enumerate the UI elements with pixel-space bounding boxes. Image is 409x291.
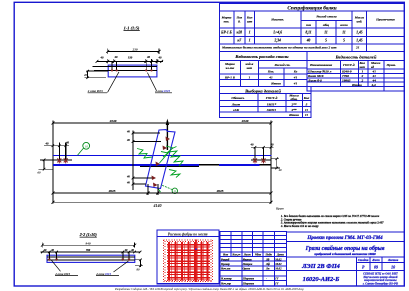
- beam bottom dim line 2: [52, 201, 273, 204]
- beam top dimension line: [52, 120, 273, 203]
- svg-text:5: 5: [325, 39, 327, 43]
- splice dim labels: [126, 130, 130, 184]
- svg-text:41: 41: [372, 70, 377, 74]
- svg-text:20: 20: [83, 73, 88, 77]
- mesh border dots: [164, 240, 213, 282]
- svg-text:40: 40: [270, 143, 275, 147]
- beam left end height dim: [39, 159, 54, 171]
- svg-text:09: 09: [374, 265, 378, 270]
- svg-text:1: 1: [362, 70, 364, 74]
- svg-text:10.02: 10.02: [275, 263, 282, 266]
- title block stage cells: [358, 258, 399, 269]
- svg-text:2**: 2**: [290, 108, 296, 112]
- svg-text:Обознач.: Обознач.: [231, 96, 244, 100]
- svg-text:прибрежной и болотистой местно: прибрежной и болотистой местности 16020: [314, 251, 376, 256]
- svg-text:Nдок: Nдок: [254, 253, 262, 256]
- section 1-1 leader right: [147, 73, 156, 91]
- svg-text:д.: д.: [238, 19, 241, 23]
- svg-text:Нач.от: Нач.от: [220, 268, 231, 271]
- svg-text:80: 80: [137, 267, 141, 271]
- svg-text:2025: 2025: [216, 189, 224, 193]
- beam right bolt dim: [251, 146, 273, 149]
- svg-text:ГГ: ГГ: [274, 283, 279, 286]
- svg-text:Выборка деталей: Выборка деталей: [244, 88, 281, 93]
- beam left bolt dim: [44, 144, 69, 147]
- svg-text:Петров: Петров: [242, 263, 253, 266]
- svg-text:Лист: Лист: [371, 258, 380, 262]
- svg-text:4,4: 4,4: [371, 83, 377, 87]
- svg-text:230: 230: [131, 47, 137, 51]
- svg-text:общ: общ: [323, 23, 329, 27]
- title block doc code: [301, 263, 340, 283]
- svg-text:Дата: Дата: [276, 253, 284, 256]
- beam right bolt dim labels: [250, 143, 275, 147]
- detail 2-2 plate (blue): [47, 255, 135, 262]
- svg-text:40: 40: [50, 249, 54, 252]
- steel summary table (left) grid: [219, 51, 404, 86]
- svg-text:1: 1: [249, 76, 251, 80]
- svg-text:Итого: Итого: [288, 113, 299, 117]
- splice weld marks (green): [137, 146, 183, 192]
- svg-text:8240-9: 8240-9: [342, 70, 352, 74]
- section 1-1 leader label right: [154, 89, 172, 93]
- svg-text:сАК: сАК: [233, 108, 240, 112]
- svg-text:ГОСТ-д: ГОСТ-д: [265, 96, 278, 100]
- detail 2-2 bolts: [49, 252, 129, 260]
- svg-text:40: 40: [126, 139, 130, 142]
- mesh blue dot: [195, 248, 197, 250]
- svg-text:изд.: изд.: [357, 19, 363, 23]
- notes block: [280, 215, 384, 228]
- spec table grid: [219, 4, 404, 52]
- detail 2-2 leader right: [114, 261, 129, 272]
- svg-text:н28: н28: [237, 31, 243, 35]
- svg-text:11: 11: [173, 189, 176, 193]
- svg-text:Примечание: Примечание: [375, 18, 395, 22]
- detail 2-2 leader left: [51, 260, 60, 271]
- svg-text:Рисунок фибры по месту: Рисунок фибры по месту: [168, 232, 208, 236]
- svg-text:Ведомость деталей: Ведомость деталей: [335, 54, 377, 59]
- detail 2-2 inner lines: [47, 257, 135, 260]
- svg-text:ЛЭП 2В ФП4: ЛЭП 2В ФП4: [301, 263, 340, 270]
- svg-text:4 отв Ø23: 4 отв Ø23: [87, 89, 103, 93]
- svg-text:41: 41: [293, 82, 298, 86]
- svg-text:16020-АИ2-Б: 16020-АИ2-Б: [303, 276, 340, 283]
- svg-text:шт: шт: [360, 65, 366, 69]
- spec table footer note: [221, 45, 360, 50]
- svg-text:1: 1: [249, 39, 251, 43]
- svg-text:2,34: 2,34: [274, 39, 281, 43]
- splice rivet arrows (dark red): [152, 137, 171, 188]
- svg-text:Расход стали: Расход стали: [316, 15, 336, 19]
- title block row 2: [305, 245, 385, 256]
- svg-text:40: 40: [114, 55, 119, 59]
- steel summary header/rows: [224, 62, 298, 86]
- signature rows: [220, 258, 282, 285]
- svg-text:1: 1: [249, 31, 251, 35]
- mesh strong vertical: [195, 240, 197, 283]
- title block firm cell: [362, 272, 398, 286]
- svg-text:60: 60: [38, 171, 42, 175]
- svg-text:4140: 4140: [153, 203, 162, 208]
- svg-text:41: 41: [293, 76, 298, 80]
- svg-text:Изм: Изм: [222, 253, 228, 256]
- section 1-1 plate outline (blue): [108, 65, 157, 77]
- svg-text:40: 40: [250, 143, 255, 147]
- mesh box: [157, 230, 219, 284]
- svg-text:г. Санкт-Петербург ВО-РФ: г. Санкт-Петербург ВО-РФ: [363, 282, 399, 286]
- spec table header text: [221, 15, 396, 27]
- svg-text:Кол: Кол: [303, 96, 310, 100]
- svg-text:Разработал Сидоров А.В. / ВЛ 2: Разработал Сидоров А.В. / ВЛ 220кВ перех…: [114, 286, 304, 291]
- svg-text:4 отв Ø23: 4 отв Ø23: [95, 272, 111, 276]
- svg-text:5: 5: [306, 102, 308, 106]
- section 1-1 left height dim: [85, 70, 109, 79]
- beam left bolts: [40, 143, 72, 160]
- section 1-1 top dimension line: [106, 48, 160, 54]
- svg-text:40: 40: [306, 39, 311, 43]
- selection table title: [244, 88, 281, 93]
- svg-text:150: 150: [128, 56, 133, 60]
- svg-text:шт: шт: [247, 19, 253, 23]
- splice dim stack: [132, 131, 161, 191]
- balloon 10: [78, 142, 90, 155]
- svg-text:ед: ед: [371, 65, 374, 69]
- svg-text:10.02: 10.02: [275, 268, 282, 271]
- svg-text:БР-1 Б: БР-1 Б: [220, 31, 232, 35]
- svg-text:5: 5: [343, 39, 345, 43]
- svg-text:общ.: общ.: [290, 97, 297, 101]
- section 1-1 second dim labels: [100, 55, 163, 59]
- svg-text:2240: 2240: [109, 119, 117, 123]
- svg-text:2**: 2**: [290, 102, 296, 106]
- svg-text:40: 40: [130, 249, 134, 252]
- svg-text:Иванов: Иванов: [242, 258, 253, 261]
- splice bottom ticks: [147, 184, 160, 195]
- svg-text:Наимен.: Наимен.: [270, 18, 284, 22]
- title block grid: [287, 232, 405, 286]
- svg-text:Листов: Листов: [387, 258, 399, 262]
- detail 2-2 bolt marks (red): [48, 259, 130, 262]
- svg-text:Р: Р: [362, 265, 365, 270]
- section 1-1 second dimension line: [96, 59, 164, 64]
- svg-text:1,45: 1,45: [356, 31, 362, 35]
- detail 2-2 second dim: [41, 251, 142, 254]
- svg-text:Лист: Лист: [231, 102, 241, 106]
- svg-text:1-1 (1:5): 1-1 (1:5): [124, 25, 140, 30]
- svg-text:поз: поз: [306, 23, 312, 27]
- svg-text:40: 40: [100, 56, 105, 60]
- selection table text: [231, 93, 310, 117]
- svg-text:ГОСТ-д: ГОСТ-д: [342, 63, 355, 67]
- svg-text:Стадия: Стадия: [358, 258, 369, 262]
- beam right bolt marks (red X): [253, 158, 266, 163]
- svg-text:Лн: Лн: [265, 268, 270, 271]
- svg-text:Провер: Провер: [220, 263, 230, 266]
- section 1-1 title: [124, 25, 140, 30]
- revision/signature table grid: [220, 232, 286, 287]
- svg-text:Кг: Кг: [293, 70, 298, 74]
- svg-text:760: 760: [86, 249, 91, 252]
- parts list title: [335, 54, 377, 59]
- svg-text:2: 2: [361, 79, 364, 83]
- svg-text:Лист б-8: Лист б-8: [307, 79, 322, 83]
- svg-text:Широков: Широков: [242, 283, 255, 286]
- svg-text:11: 11: [324, 31, 328, 35]
- detail 2-2 second dim labels: [43, 249, 135, 252]
- section 1-1 bolt marks (red): [111, 69, 153, 71]
- svg-text:Грязи свайные опоры на обрыв: Грязи свайные опоры на обрыв: [305, 245, 385, 252]
- svg-text:40: 40: [158, 56, 163, 60]
- svg-text:40: 40: [45, 141, 50, 145]
- svg-text:4 отв Ø23: 4 отв Ø23: [54, 272, 70, 276]
- svg-text:Лист: Лист: [243, 253, 252, 256]
- beam left bolt marks (red X): [57, 158, 67, 163]
- svg-text:Н.контр: Н.контр: [220, 278, 232, 281]
- svg-text:Расход ст.: Расход ст.: [275, 63, 291, 67]
- svg-text:2-2 (1:10): 2-2 (1:10): [79, 232, 98, 237]
- spec table title: [287, 5, 336, 12]
- svg-text:40: 40: [126, 130, 130, 133]
- section cut arrow: [166, 119, 169, 150]
- svg-text:поз.: поз.: [224, 19, 230, 23]
- svg-text:21: 21: [355, 46, 360, 50]
- section 1-1 leader left: [108, 72, 120, 93]
- beam bottom flange (thick blue with black splice): [53, 165, 272, 167]
- svg-text:11: 11: [305, 108, 309, 112]
- parts list table (right) grid: [307, 51, 404, 91]
- svg-text:Ведомость расхода стали: Ведомость расхода стали: [234, 54, 289, 59]
- svg-text:Итого: Итого: [351, 83, 362, 87]
- svg-text:Нач.упр: Нач.упр: [220, 283, 232, 286]
- svg-text:Разраб: Разраб: [221, 258, 230, 261]
- svg-text:10: 10: [85, 144, 89, 148]
- beam left bolt dim labels: [45, 141, 70, 146]
- section 1-1 leader label left: [87, 89, 107, 93]
- svg-text:ГГ: ГГ: [274, 278, 279, 281]
- detail 2-2 leader label left: [54, 272, 78, 276]
- svg-text:L=4,6: L=4,6: [272, 31, 282, 35]
- svg-text:940: 940: [85, 241, 90, 245]
- svg-text:40: 40: [124, 249, 128, 252]
- spec table data rows: [220, 31, 363, 43]
- svg-text:Кол.уч: Кол.уч: [231, 253, 240, 256]
- svg-text:всего: всего: [340, 23, 348, 27]
- svg-text:Наименование: Наименование: [309, 63, 333, 67]
- svg-text:Поз.: Поз.: [267, 70, 275, 74]
- svg-text:Лд: Лд: [265, 258, 270, 261]
- svg-text:Монтажные болты поставлять отд: Монтажные болты поставлять отдельно по о…: [221, 45, 337, 50]
- svg-text:н7: н7: [237, 39, 241, 43]
- svg-text:19П1*: 19П1*: [267, 102, 277, 106]
- svg-text:шт: шт: [247, 66, 253, 70]
- beam top dim labels: [109, 119, 249, 123]
- svg-text:Лф: Лф: [265, 263, 270, 266]
- svg-text:40: 40: [126, 181, 130, 184]
- svg-text:Спецификация балки: Спецификация балки: [287, 5, 336, 12]
- svg-text:1,45: 1,45: [356, 39, 362, 43]
- svg-text:Швеллер №20 л: Швеллер №20 л: [307, 70, 332, 74]
- svg-text:40: 40: [126, 175, 130, 178]
- beam bottom dim 1 labels: [108, 189, 224, 193]
- svg-text:10: 10: [391, 265, 395, 270]
- svg-text:11: 11: [342, 31, 346, 35]
- svg-text:Подп: Подп: [264, 253, 272, 256]
- detail 2-2 top dim: [41, 243, 136, 248]
- svg-text:Широков: Широков: [242, 278, 255, 281]
- svg-text:Итого: Итого: [270, 82, 281, 86]
- detail 2-2 right height dim: [135, 259, 143, 268]
- beam top flange (thin blue): [53, 154, 272, 156]
- beam right end height dim: [271, 157, 280, 169]
- section 1-1 channel edges (black): [93, 66, 157, 70]
- section 1-1 bolts: [112, 62, 152, 71]
- svg-text:эл-та: эл-та: [225, 66, 235, 70]
- mesh grid (red): [164, 240, 213, 283]
- svg-text:Прим: Прим: [275, 207, 284, 211]
- svg-text:10.02: 10.02: [275, 258, 282, 261]
- svg-text:Проект прогона ГМ4. МГ-03-ГМ4: Проект прогона ГМ4. МГ-03-ГМ4: [306, 236, 383, 241]
- parts list header/rows: [307, 61, 396, 87]
- svg-text:8,11: 8,11: [305, 31, 311, 35]
- revision table header: [222, 253, 284, 256]
- detail 2-2 title: [79, 232, 98, 237]
- svg-text:Орлов: Орлов: [243, 268, 251, 271]
- steel summary title: [234, 54, 289, 59]
- svg-text:41: 41: [268, 76, 273, 80]
- svg-text:11: 11: [305, 113, 309, 117]
- svg-text:2240: 2240: [241, 119, 249, 123]
- svg-text:19903: 19903: [342, 79, 351, 83]
- svg-text:4 отв Ø23: 4 отв Ø23: [154, 89, 170, 93]
- svg-text:2025: 2025: [108, 189, 116, 193]
- beam right bolts: [251, 147, 272, 160]
- svg-text:40: 40: [43, 249, 47, 252]
- svg-text:34П11: 34П11: [266, 108, 277, 112]
- selection table (vyborka) grid: [219, 86, 311, 117]
- svg-text:44: 44: [372, 79, 377, 83]
- svg-text:БР-1 Б: БР-1 Б: [224, 76, 236, 80]
- svg-text:40: 40: [146, 55, 151, 59]
- svg-text:40: 40: [278, 168, 283, 172]
- detail 2-2 leader label right: [95, 272, 119, 276]
- svg-text:Прим.: Прим.: [386, 63, 397, 67]
- splice plate (blue parallelogram): [146, 130, 176, 189]
- svg-text:4. Масса балки 414 кг на опору: 4. Масса балки 414 кг на опору: [280, 225, 319, 228]
- beam bottom dim line 1: [52, 192, 273, 195]
- balloon 11: [161, 185, 178, 194]
